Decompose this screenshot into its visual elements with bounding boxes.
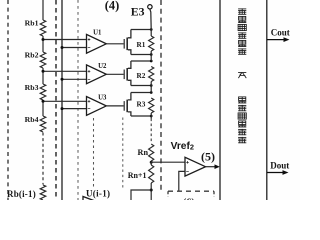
svg-text:U1: U1 <box>93 29 102 36</box>
wire loop top K3 <box>131 92 151 94</box>
svg-text:Rb1: Rb1 <box>25 18 39 27</box>
wire tap to U3 plus input <box>43 100 87 102</box>
wire ladder segment <box>42 68 44 84</box>
svg-text:Cout: Cout <box>271 28 290 38</box>
wire string segment <box>150 30 152 37</box>
resistor Rb4 <box>25 115 46 132</box>
wire ladder segment <box>42 100 44 116</box>
label logic control circuit (vertical CJK) <box>238 8 246 54</box>
svg-text:Rb2: Rb2 <box>25 51 39 60</box>
svg-text:R1: R1 <box>137 40 146 49</box>
svg-text:(6): (6) <box>183 198 195 201</box>
svg-text:U3: U3 <box>98 94 107 101</box>
dashed box (6) left edge <box>167 191 169 197</box>
arrow Cout <box>284 37 290 42</box>
resistor R3 <box>137 98 154 113</box>
svg-text:Dout: Dout <box>270 161 289 171</box>
wire loop top K2 <box>131 60 151 62</box>
op-amp (5) buffer <box>185 157 206 176</box>
wire E3 to string <box>150 9 151 29</box>
svg-text:Rb4: Rb4 <box>25 115 39 124</box>
svg-text:Vref2: Vref2 <box>171 141 194 152</box>
op-amp U2 <box>87 63 108 84</box>
wire string segment <box>150 51 152 55</box>
wire loop bottom K2 <box>131 85 151 87</box>
dashed box edge (4) right <box>160 0 162 193</box>
svg-text:R3: R3 <box>137 99 146 108</box>
resistor Rn+1 <box>128 165 154 183</box>
wire Dout <box>267 172 283 174</box>
node bus U2 <box>61 78 64 81</box>
wire bus to U3 minus input <box>62 108 87 110</box>
resistor Rb3 <box>25 83 46 100</box>
dashed box (6) right edge <box>213 191 215 197</box>
dashed box edge inner <box>77 0 79 200</box>
arrow buffer output <box>215 164 220 169</box>
op-amp U3 <box>87 94 108 115</box>
svg-text:U(i-1): U(i-1) <box>86 188 110 198</box>
svg-text:Rn: Rn <box>138 148 149 157</box>
wire string segment <box>150 82 152 86</box>
wire loop top K1 <box>131 29 151 31</box>
wire buffer minus feedback <box>179 171 185 191</box>
node tap U3 <box>42 100 45 103</box>
node string top K2 <box>150 60 153 63</box>
wire bus to U2 minus input <box>62 78 87 80</box>
wire Rn tap to buffer <box>151 161 185 163</box>
svg-text:Rn+1: Rn+1 <box>128 171 147 180</box>
node string top K3 <box>150 91 153 94</box>
node bus U3 <box>61 107 64 110</box>
op-amp U1 <box>87 29 107 53</box>
dashed box edge (3)/(4) divider <box>55 0 57 200</box>
logic block right edge <box>266 0 268 200</box>
resistor Rb1 <box>25 18 46 36</box>
node string top K1 <box>150 28 153 31</box>
node string bottom K2 <box>150 84 153 87</box>
svg-text:Rb3: Rb3 <box>25 83 39 92</box>
node string bottom K1 <box>150 53 153 56</box>
transistor K3 <box>124 93 131 117</box>
resistor Rb(i-1) <box>7 185 46 200</box>
node tap U2 <box>42 70 45 73</box>
resistor R1 <box>137 36 154 51</box>
terminal E3 <box>131 4 152 18</box>
node bottom stage <box>150 189 153 192</box>
dashed box edge left <box>7 0 9 200</box>
logic block left edge <box>219 0 221 200</box>
wire vref bus <box>61 0 63 200</box>
wire bottom stage drain <box>131 190 151 200</box>
resistor R2 <box>137 67 154 82</box>
op-amp U(i-1) <box>83 188 110 212</box>
wire string segment <box>150 55 152 62</box>
svg-text:(4): (4) <box>105 0 119 12</box>
wire U2 output to gate <box>106 73 123 75</box>
svg-text:U2: U2 <box>98 63 107 70</box>
node string bottom K3 <box>150 115 153 118</box>
node Vref2 tap <box>150 161 153 164</box>
transistor column continuation dotted <box>122 118 124 189</box>
resistor Rn <box>138 144 154 161</box>
svg-text:R2: R2 <box>137 71 146 80</box>
op-amp column continuation dotted <box>93 118 95 188</box>
transistor K1 <box>124 30 131 55</box>
svg-text:E3: E3 <box>131 4 145 18</box>
wire ladder segment <box>42 36 44 52</box>
wire tap to U1 plus input <box>43 39 87 41</box>
wire string continuation dotted <box>150 119 152 144</box>
svg-text:Rb(i-1): Rb(i-1) <box>7 189 36 199</box>
wire string bottom <box>150 183 152 200</box>
wire tap to U2 plus input <box>43 70 87 72</box>
svg-text:(5): (5) <box>201 149 215 163</box>
wire ladder continuation dotted <box>42 133 44 185</box>
resistor Rb2 <box>25 51 46 68</box>
dashed box (6) top edge <box>168 190 214 192</box>
arrow Dout <box>283 170 289 175</box>
wire ladder top <box>42 0 44 20</box>
transistor K2 <box>124 61 131 86</box>
wire bus to U1 minus input <box>62 47 87 49</box>
wire string segment <box>150 113 152 116</box>
label level shift circuit (vertical CJK) <box>238 97 246 143</box>
wire string segment <box>150 86 152 93</box>
node bus U1 <box>61 46 64 49</box>
wire loop bottom K1 <box>131 54 151 56</box>
wire U3 output to gate <box>106 105 123 107</box>
wire loop bottom K3 <box>131 115 151 117</box>
wire buffer output <box>206 166 216 168</box>
label and (CJK) <box>238 73 246 79</box>
node tap U1 <box>42 38 45 41</box>
wire U1 output to gate <box>106 43 123 45</box>
wire string segment <box>150 116 152 119</box>
wire Cout <box>267 39 284 41</box>
